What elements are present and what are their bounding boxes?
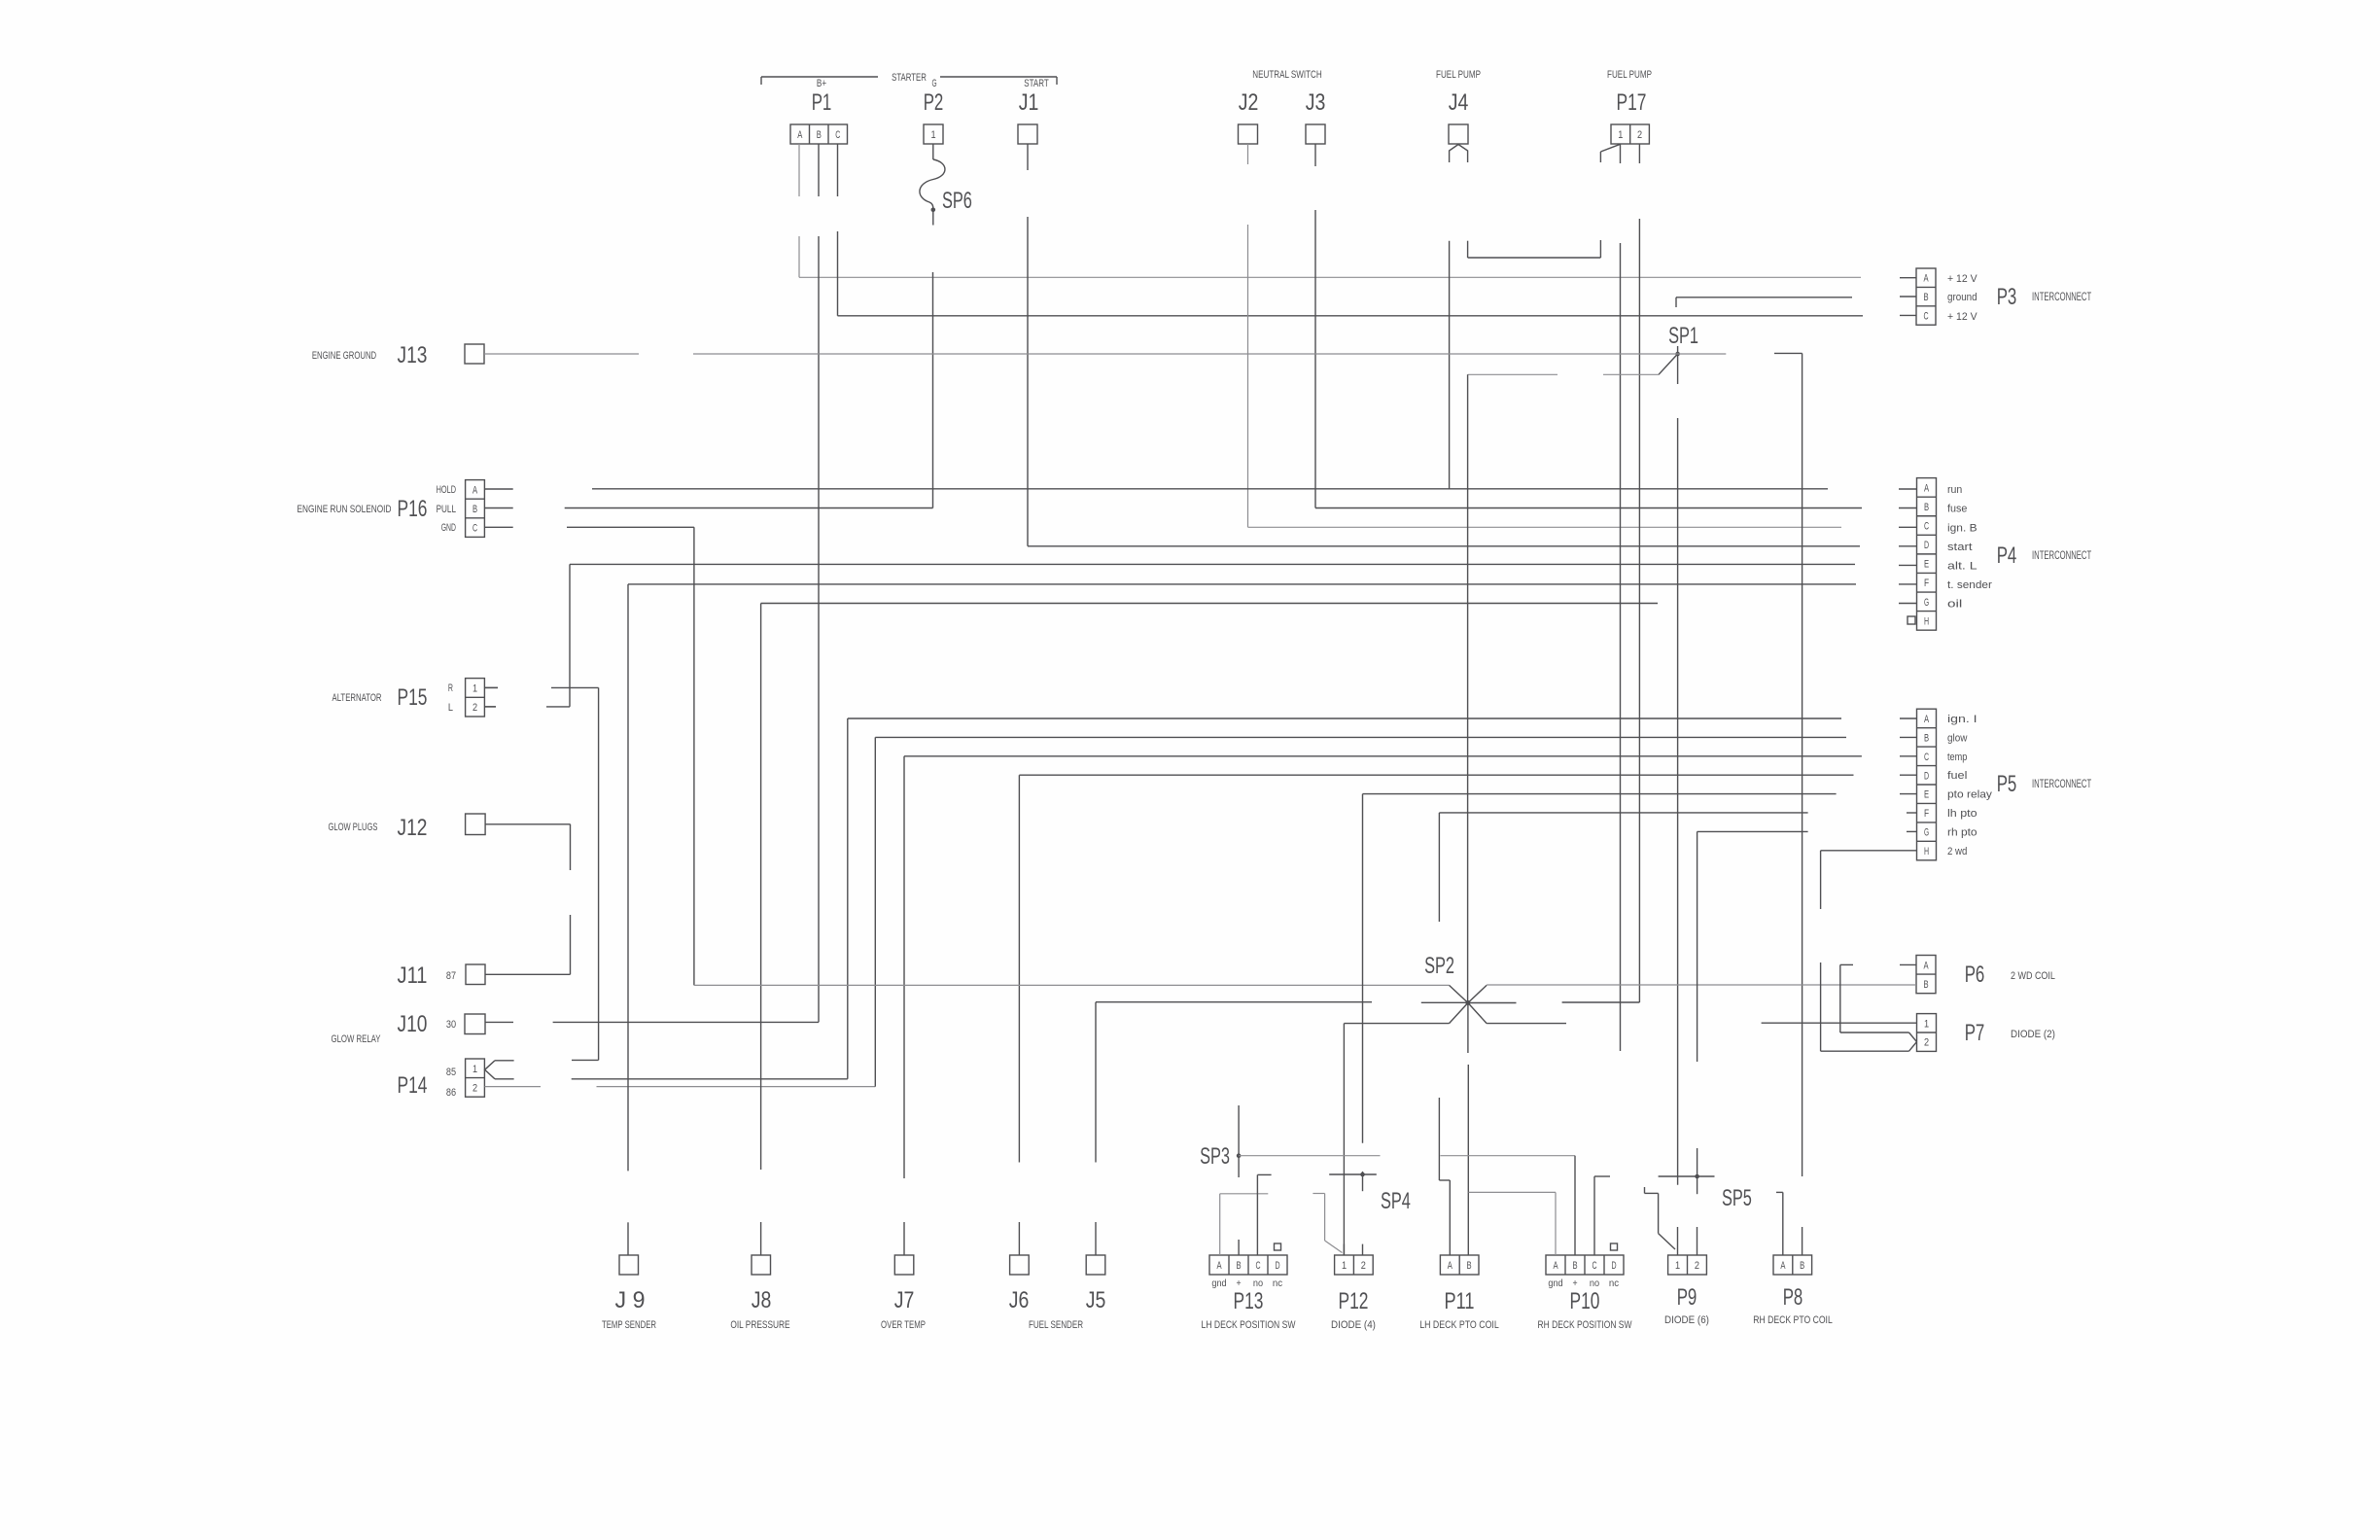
connector P8 (1753, 1255, 1833, 1326)
wire P9-2 stub (1697, 1227, 1698, 1255)
connector P11 (1419, 1255, 1499, 1331)
label GLOW RELAY (332, 1033, 381, 1045)
label FUEL SENDER (1029, 1319, 1083, 1331)
svg-text:GND: GND (441, 522, 456, 534)
svg-text:C: C (1924, 521, 1929, 533)
connector J3 (1306, 89, 1326, 144)
svg-text:STARTER: STARTER (892, 72, 927, 84)
wire P13-B riser to SP3 (1238, 1105, 1240, 1255)
wire P17-1 down (1620, 144, 1622, 1051)
svg-text:1: 1 (1618, 129, 1623, 141)
svg-text:RH DECK POSITION SW: RH DECK POSITION SW (1538, 1319, 1632, 1331)
connector J4 (1449, 89, 1469, 144)
splice SP5 (1695, 1174, 1752, 1211)
P10-D pin square (1611, 1243, 1618, 1250)
svg-text:run: run (1947, 484, 1962, 496)
svg-text:P13: P13 (1234, 1288, 1264, 1314)
wire J2 to P4-C ign B (1248, 144, 1842, 527)
connector P15 (332, 679, 485, 717)
svg-text:DIODE (4): DIODE (4) (1331, 1319, 1376, 1331)
svg-text:P14: P14 (398, 1072, 428, 1099)
connector P1 (790, 89, 848, 144)
svg-text:P15: P15 (398, 684, 428, 711)
svg-text:A: A (1923, 960, 1929, 971)
svg-text:J8: J8 (752, 1287, 772, 1313)
connector J10 (398, 1011, 485, 1037)
svg-text:A: A (1216, 1260, 1222, 1272)
svg-text:INTERCONNECT: INTERCONNECT (2032, 550, 2091, 562)
svg-text:P4: P4 (1997, 542, 2017, 569)
splice SP1 (1659, 323, 1698, 384)
P4 pin stubs (1899, 489, 1917, 604)
wire P1-A to P3-A +12V (799, 144, 1861, 277)
svg-text:P1: P1 (812, 89, 832, 116)
connector P2 (924, 89, 944, 144)
wire J8 to P4-G oil (761, 604, 1658, 1256)
P3 pin stubs (1900, 278, 1916, 316)
label G (931, 78, 936, 89)
svg-text:pto relay: pto relay (1947, 789, 1992, 801)
svg-text:1: 1 (1675, 1260, 1680, 1272)
wire J3 to P4-B fuse (1315, 144, 1862, 508)
svg-text:P3: P3 (1997, 284, 2017, 310)
wire J4 right leg to P17-1 staple (1468, 240, 1601, 258)
svg-text:A: A (1924, 714, 1930, 725)
wire J9 to P4-F t sender (628, 584, 1856, 1255)
svg-text:ign. B: ign. B (1947, 522, 1977, 534)
svg-text:G: G (931, 78, 936, 89)
svg-text:H: H (1924, 615, 1929, 627)
wire P14-1 85 receptacle arrow (485, 1061, 514, 1079)
wire J4 left leg to run line (1449, 241, 1451, 489)
connector P17 (1611, 89, 1649, 144)
svg-text:START: START (1024, 78, 1049, 89)
svg-text:ground: ground (1947, 292, 1977, 303)
svg-text:2: 2 (1637, 129, 1642, 141)
P5 pin stubs (1900, 718, 1917, 831)
wire P6-A to P7-2 (1840, 964, 1917, 1041)
svg-text:G: G (1924, 597, 1929, 609)
svg-text:NEUTRAL SWITCH: NEUTRAL SWITCH (1252, 69, 1321, 81)
wire P1-B battery to J10-30 (485, 144, 819, 1022)
P16 pin stubs (484, 489, 512, 527)
svg-text:H: H (1924, 846, 1929, 857)
svg-text:L: L (448, 702, 453, 714)
svg-text:2: 2 (1361, 1260, 1366, 1272)
P6-A pin stub (1900, 963, 1916, 965)
wire P12-2 riser to P5-E pto relay (1363, 794, 1837, 1255)
svg-text:J12: J12 (398, 815, 428, 841)
svg-text:P5: P5 (1997, 771, 2017, 797)
svg-text:J1: J1 (1019, 89, 1039, 116)
svg-text:85: 85 (446, 1067, 456, 1078)
splice SP6 (920, 159, 972, 214)
wire SP2 NW arm to P16-C (694, 984, 1450, 986)
wire J7 to P5-C temp (904, 756, 1862, 1255)
svg-text:B: B (1800, 1260, 1804, 1272)
label FUEL PUMP (J4) (1436, 69, 1481, 81)
svg-text:GLOW RELAY: GLOW RELAY (332, 1033, 381, 1045)
svg-text:1: 1 (1924, 1018, 1929, 1030)
wire SP2 SW arm to P12-1 (1344, 1024, 1449, 1255)
wire P9-1 diagonal feed (1645, 1187, 1676, 1249)
svg-text:ign. I: ign. I (1947, 714, 1977, 725)
svg-text:E: E (1924, 559, 1929, 571)
svg-text:gnd: gnd (1211, 1278, 1226, 1289)
svg-text:FUEL PUMP: FUEL PUMP (1607, 69, 1652, 81)
wire J6 to P5-D fuel (1019, 775, 1853, 1255)
wire ground riser to SP2 (1467, 374, 1469, 1002)
splice SP3 (1200, 1143, 1241, 1170)
wire P10-A gnd to P11-B riser (1469, 1192, 1557, 1255)
svg-text:1: 1 (472, 1064, 477, 1075)
connector J2 (1239, 89, 1259, 144)
svg-text:B+: B+ (817, 78, 826, 89)
connector P12 (1331, 1255, 1376, 1331)
svg-text:ENGINE GROUND: ENGINE GROUND (312, 350, 376, 362)
wire ground to P3-B (1676, 297, 1852, 307)
svg-text:+ 12 V: + 12 V (1947, 311, 1977, 323)
svg-text:J13: J13 (398, 342, 428, 368)
connector J12 (329, 814, 486, 841)
svg-text:1: 1 (930, 129, 935, 141)
svg-text:rh pto: rh pto (1947, 826, 1977, 838)
svg-text:C: C (1592, 1260, 1596, 1272)
svg-text:C: C (472, 523, 477, 535)
connector J6 (1009, 1255, 1030, 1313)
svg-text:OIL PRESSURE: OIL PRESSURE (730, 1319, 789, 1331)
svg-text:P2: P2 (924, 89, 944, 116)
svg-text:C: C (835, 129, 840, 141)
label START (1024, 78, 1049, 89)
svg-text:J5: J5 (1086, 1287, 1106, 1313)
svg-text:R: R (448, 682, 453, 694)
wire SP2 vertical to P11-B (1467, 1003, 1469, 1256)
connector P5 (1917, 709, 2092, 860)
svg-text:P7: P7 (1965, 1020, 1985, 1046)
wire ground bus J13 to SP1 (484, 353, 1726, 355)
connector J7 (881, 1255, 926, 1331)
connector J1 (1018, 89, 1038, 144)
P13 pin function labels (1211, 1278, 1282, 1289)
svg-text:J11: J11 (398, 962, 428, 989)
svg-text:LH DECK PTO COIL: LH DECK PTO COIL (1419, 1319, 1499, 1331)
svg-text:glow: glow (1947, 732, 1967, 744)
svg-text:P10: P10 (1570, 1288, 1600, 1314)
svg-text:B: B (1923, 292, 1928, 303)
svg-text:A: A (1780, 1260, 1786, 1272)
svg-text:OVER TEMP: OVER TEMP (881, 1319, 926, 1331)
connector P9 (1664, 1255, 1709, 1326)
wire P13-C no to SP4 (1257, 1174, 1376, 1255)
svg-text:ENGINE RUN SOLENOID: ENGINE RUN SOLENOID (297, 504, 392, 515)
label FUEL PUMP (P17) (1607, 69, 1652, 81)
connector J9 (602, 1255, 656, 1331)
svg-text:no: no (1590, 1278, 1600, 1289)
starter bracket (761, 72, 1057, 85)
svg-text:SP2: SP2 (1424, 953, 1454, 979)
svg-text:t. sender: t. sender (1947, 579, 1992, 591)
svg-text:D: D (1275, 1260, 1279, 1272)
svg-text:J3: J3 (1306, 89, 1326, 116)
svg-text:P11: P11 (1445, 1288, 1475, 1314)
svg-text:DIODE (2): DIODE (2) (2011, 1029, 2055, 1040)
wire P2-G via SP6 to P16-B PULL (565, 144, 933, 508)
svg-text:SP1: SP1 (1668, 323, 1698, 349)
svg-text:HOLD: HOLD (437, 484, 456, 496)
connector P6 (1916, 956, 2055, 994)
wire P17-1 diagonal (1600, 144, 1620, 162)
svg-text:B: B (1572, 1260, 1577, 1272)
wire J5 to SP2 (1096, 1002, 1468, 1255)
wire P8-B stub (1802, 1227, 1803, 1255)
svg-text:+: + (1572, 1278, 1577, 1289)
wire ground branch to P8-B (1774, 353, 1802, 1176)
svg-text:P17: P17 (1617, 89, 1647, 116)
svg-text:1: 1 (1342, 1260, 1347, 1272)
svg-text:oil: oil (1947, 599, 1962, 611)
P5 pin labels (1947, 714, 1992, 857)
svg-text:J 9: J 9 (615, 1287, 646, 1313)
svg-text:SP3: SP3 (1200, 1143, 1230, 1170)
wire P15-1 R down (484, 687, 598, 1060)
wire P11-A to P5-F lh pto (1439, 813, 1807, 1255)
svg-text:P9: P9 (1677, 1284, 1697, 1311)
svg-text:PULL: PULL (437, 504, 456, 515)
svg-text:2: 2 (1924, 1037, 1929, 1049)
wire P10-B riser (1574, 1156, 1576, 1255)
P15 pin stubs (484, 687, 498, 707)
wire J1-START to P4-D start (1028, 144, 1860, 546)
svg-text:start: start (1947, 542, 1973, 553)
connector P10 (1538, 1255, 1632, 1331)
svg-text:1: 1 (472, 682, 477, 694)
splice SP4 (1360, 1172, 1411, 1214)
wire P16-C GND to SP2 (567, 527, 694, 985)
svg-text:2: 2 (472, 1082, 477, 1094)
svg-text:+: + (1236, 1278, 1241, 1289)
svg-text:B: B (1924, 502, 1929, 513)
svg-text:J7: J7 (894, 1287, 915, 1313)
connector P3 (1916, 268, 2091, 325)
svg-text:gnd: gnd (1548, 1278, 1562, 1289)
svg-text:FUEL PUMP: FUEL PUMP (1436, 69, 1481, 81)
svg-text:B: B (1923, 979, 1928, 991)
svg-text:P8: P8 (1783, 1284, 1803, 1311)
P10 pin function labels (1548, 1278, 1619, 1289)
svg-text:A: A (1924, 482, 1930, 494)
P4 pin labels (1947, 484, 1992, 611)
wire J12 glow plugs to J11-87 (485, 824, 571, 975)
wire P8-A riser (1776, 1192, 1783, 1255)
wire P15-2 L to P4-E alt L (484, 564, 1855, 707)
svg-text:ALTERNATOR: ALTERNATOR (332, 692, 382, 704)
svg-text:87: 87 (446, 970, 456, 982)
svg-text:J4: J4 (1449, 89, 1469, 116)
svg-text:P12: P12 (1339, 1288, 1369, 1314)
svg-text:A: A (797, 129, 803, 141)
connector P4 (1917, 478, 2092, 631)
svg-text:2: 2 (472, 702, 477, 714)
connector J8 (730, 1255, 789, 1331)
svg-text:2: 2 (1695, 1260, 1699, 1272)
label B+ (817, 78, 826, 89)
connector P14 (398, 1059, 485, 1099)
connector P7 (1917, 1014, 2055, 1052)
svg-text:F: F (1924, 577, 1929, 589)
connector J13 (312, 342, 484, 368)
wire P5-H 2wd to P7-2 (1821, 851, 1917, 1051)
P13-D pin square (1275, 1243, 1281, 1250)
connector P13 (1202, 1255, 1296, 1331)
svg-text:INTERCONNECT: INTERCONNECT (2032, 292, 2091, 303)
wire SP1 ground west to riser (1468, 373, 1659, 375)
svg-text:temp: temp (1947, 752, 1967, 763)
svg-text:J2: J2 (1239, 89, 1259, 116)
svg-text:2 wd: 2 wd (1947, 846, 1967, 857)
wire P17-2 to SP2 ground (1468, 144, 1640, 1003)
svg-text:A: A (1553, 1260, 1558, 1272)
svg-text:B: B (472, 504, 477, 515)
wire P13-A gnd chain to P12-1 (1220, 1194, 1343, 1256)
wire SP5 horizontal from P10-C (1594, 1176, 1715, 1255)
connector J4 receptacle symbol (1450, 145, 1468, 163)
svg-text:D: D (1611, 1260, 1616, 1272)
svg-text:P16: P16 (398, 496, 428, 522)
svg-text:nc: nc (1609, 1278, 1619, 1289)
P16 pin labels (437, 484, 456, 534)
svg-text:C: C (1923, 311, 1928, 323)
svg-text:C: C (1255, 1260, 1260, 1272)
svg-text:G: G (1924, 827, 1929, 839)
svg-text:TEMP SENDER: TEMP SENDER (602, 1319, 656, 1331)
svg-text:P6: P6 (1965, 962, 1985, 988)
svg-text:B: B (817, 129, 822, 141)
wire P5-G rh pto to SP5 (1697, 831, 1808, 1194)
svg-text:J10: J10 (398, 1011, 428, 1037)
svg-text:D: D (1924, 540, 1929, 551)
wire SP1 vertical to P9-1 (1677, 418, 1679, 1185)
svg-text:lh pto: lh pto (1947, 808, 1977, 820)
svg-text:30: 30 (446, 1019, 456, 1031)
svg-text:2 WD COIL: 2 WD COIL (2011, 970, 2055, 982)
svg-text:B: B (1924, 732, 1929, 744)
connector J11 (398, 962, 485, 989)
svg-text:A: A (1448, 1260, 1453, 1272)
svg-text:J6: J6 (1009, 1287, 1030, 1313)
svg-text:E: E (1924, 789, 1929, 801)
svg-text:INTERCONNECT: INTERCONNECT (2032, 779, 2091, 790)
svg-text:DIODE (6): DIODE (6) (1664, 1314, 1709, 1326)
wire SP2 SE arm to P7-1 (1487, 1022, 1916, 1024)
svg-text:fuse: fuse (1947, 504, 1967, 515)
svg-text:SP5: SP5 (1722, 1185, 1752, 1211)
wire P1-C to P3-C +12V (838, 144, 1864, 316)
svg-text:nc: nc (1273, 1278, 1282, 1289)
svg-text:A: A (1923, 273, 1929, 285)
svg-text:A: A (472, 484, 478, 496)
P15 pin labels (448, 682, 453, 714)
svg-text:GLOW PLUGS: GLOW PLUGS (329, 822, 378, 833)
svg-text:SP6: SP6 (942, 188, 972, 214)
svg-text:86: 86 (446, 1087, 456, 1099)
wire P12-1 riser stub (1343, 1244, 1345, 1255)
label NEUTRAL SWITCH (1252, 69, 1321, 81)
svg-text:+ 12 V: + 12 V (1947, 273, 1977, 285)
svg-text:SP4: SP4 (1381, 1188, 1411, 1214)
svg-text:no: no (1253, 1278, 1264, 1289)
svg-text:C: C (1924, 752, 1929, 763)
wire SP2 NE arm to P6-B (1487, 984, 1916, 986)
P4-H pin square (1907, 616, 1915, 624)
connector J5 (1086, 1255, 1106, 1313)
svg-text:FUEL SENDER: FUEL SENDER (1029, 1319, 1083, 1331)
wire P16-A HOLD run line to P4-A (592, 488, 1828, 490)
connector P16 (297, 480, 485, 538)
svg-text:B: B (1236, 1260, 1241, 1272)
P3 pin labels (1947, 273, 1977, 323)
svg-text:F: F (1924, 808, 1929, 820)
wire P9-1 stub (1677, 1227, 1679, 1255)
svg-text:RH DECK PTO COIL: RH DECK PTO COIL (1753, 1314, 1833, 1326)
svg-text:fuel: fuel (1947, 770, 1967, 782)
splice SP2 (1424, 953, 1487, 1024)
wire P14-2 86 to P5-B glow (484, 737, 1846, 1086)
wire SP3 horizontal +feed (1239, 1155, 1575, 1157)
wire P14-1 lower arm to P5-A ign I (572, 718, 1841, 1079)
svg-text:alt. L: alt. L (1947, 560, 1977, 572)
svg-text:B: B (1467, 1260, 1472, 1272)
svg-text:D: D (1924, 770, 1929, 782)
svg-text:LH DECK POSITION SW: LH DECK POSITION SW (1202, 1319, 1296, 1331)
